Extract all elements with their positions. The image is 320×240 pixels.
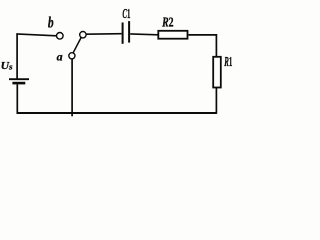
switch pole circle: [80, 32, 86, 38]
wire left vertical: corner down to battery: [16, 33, 18, 78]
wire top-left: corner to switch contact b: [16, 34, 56, 36]
battery Us long plate: [9, 78, 29, 80]
wire from contact a down to bottom wire: [71, 59, 73, 116]
wire right vertical down to R1: [215, 34, 217, 56]
battery Us short plate: [12, 82, 25, 85]
wire pole to capacitor C1: [86, 33, 121, 36]
svg-text:C1: C1: [122, 7, 130, 22]
wire R1 bottom to bottom wire: [215, 88, 217, 114]
wire left lower: battery to bottom corner: [16, 84, 18, 113]
switch arm a to pole: [73, 37, 81, 53]
svg-text:Us: Us: [1, 60, 14, 72]
wire capacitor to R2: [130, 33, 157, 36]
svg-text:R1: R1: [224, 55, 233, 70]
resistor R1 box: [213, 57, 221, 88]
switch contact a (open circle): [69, 53, 75, 59]
svg-text:b: b: [48, 15, 54, 32]
svg-text:R2: R2: [161, 15, 173, 30]
wire R2 to top-right corner and down: [189, 34, 218, 36]
wire bottom: [17, 112, 217, 114]
resistor R2 box: [158, 31, 187, 39]
capacitor C1 right plate: [128, 21, 130, 42]
capacitor C1 left plate: [122, 23, 124, 44]
svg-text:a: a: [57, 49, 63, 63]
switch contact b (open circle): [57, 33, 64, 40]
